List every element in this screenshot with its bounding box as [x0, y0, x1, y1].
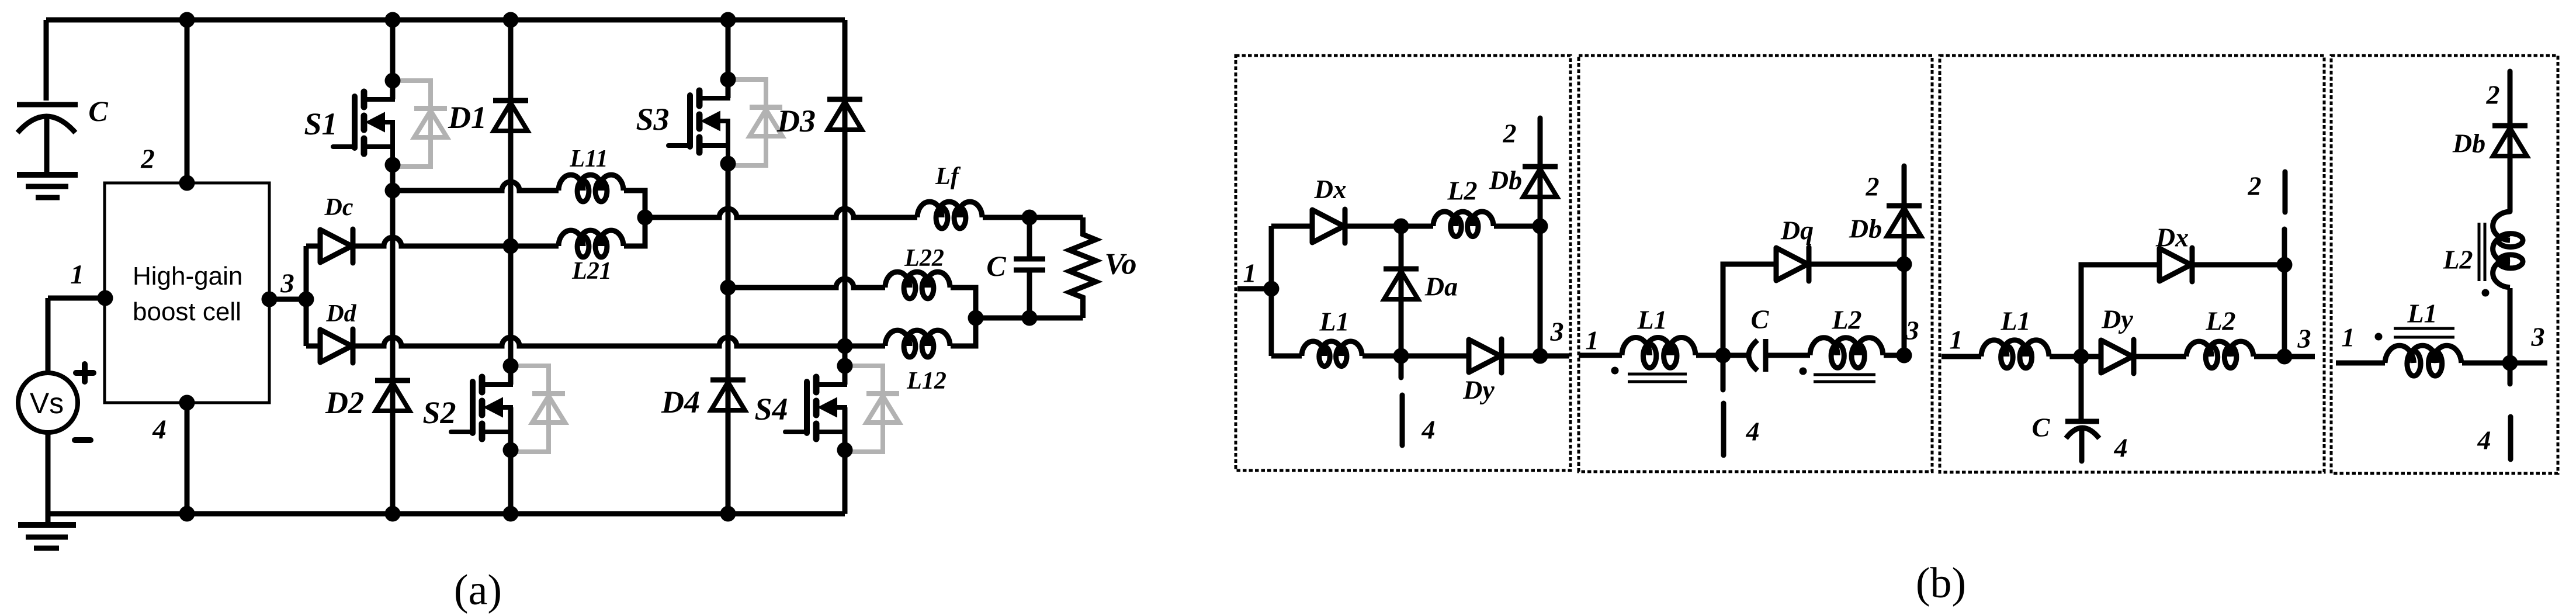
svg-text:S2: S2 — [422, 395, 456, 430]
wire top bus — [46, 18, 845, 23]
phase dot L2 (b2) — [1800, 368, 1807, 375]
svg-text:L1: L1 — [2407, 299, 2437, 328]
junction b1 Da bottom — [1393, 348, 1409, 364]
wire Vs bottom lead — [46, 432, 51, 514]
svg-text:Dc: Dc — [324, 194, 353, 221]
inductor L21 — [559, 230, 623, 257]
junction node 4 box — [179, 395, 195, 411]
svg-text:Dy: Dy — [1462, 375, 1495, 405]
wire b1 top rail left — [1271, 224, 1312, 229]
high-gain boost cell block — [105, 183, 269, 403]
inductor L1 (b4) — [2385, 345, 2461, 376]
svg-text:3: 3 — [1905, 316, 1919, 345]
wire b3 rail right — [2254, 354, 2315, 359]
diode Db (b2) — [1887, 206, 1922, 236]
svg-text:S3: S3 — [636, 102, 669, 137]
wire S1 source to L11 (hop over D1/S2 leg) — [393, 182, 559, 191]
svg-text:Da: Da — [1424, 272, 1458, 302]
wire b3 node2 tail — [2282, 229, 2287, 265]
label + (Vs polarity) — [76, 364, 93, 382]
svg-text:4: 4 — [2477, 425, 2491, 455]
wire S1/D2 leg lower — [390, 165, 396, 514]
phase dot L1 (b4) — [2375, 333, 2383, 341]
wire b4 rail right — [2462, 361, 2547, 366]
wire Dc to L21 (hop over S1/D2 leg) — [354, 237, 559, 246]
junction S1 source line — [385, 183, 401, 199]
svg-text:Db: Db — [1849, 214, 1882, 244]
junction node 3 box edge — [262, 292, 278, 307]
inductor L2 (b3) — [2186, 341, 2253, 368]
wire L21 to merge node — [624, 217, 645, 246]
transistor S1 — [333, 73, 447, 173]
wire output bottom — [976, 316, 1083, 321]
junction node 2 top — [179, 12, 195, 28]
svg-text:3: 3 — [2297, 324, 2311, 354]
capacitor C (input, top-left) — [17, 105, 78, 175]
boost cell box 4 (dashed) — [2331, 56, 2558, 473]
wire b4 rail left — [2336, 361, 2385, 366]
wire node 1 — [48, 296, 105, 301]
svg-text:2: 2 — [140, 144, 155, 174]
wire D3/S4 leg lower — [843, 407, 848, 514]
svg-text:L1: L1 — [1319, 307, 1349, 337]
transistor S4 — [785, 358, 899, 458]
svg-text:L2: L2 — [1447, 176, 1477, 206]
svg-text:4: 4 — [1422, 415, 1436, 445]
wire input capacitor branch lead — [44, 20, 49, 101]
junction b3 center — [2074, 349, 2089, 365]
svg-text:L2: L2 — [2205, 306, 2235, 336]
wire b3 terminal 2 stub — [2283, 172, 2288, 212]
diode D2 — [375, 380, 410, 411]
diode D1 — [493, 101, 528, 131]
core lines L1 (b2) — [1628, 374, 1687, 382]
diode Da (b1) — [1384, 226, 1419, 356]
svg-text:S1: S1 — [304, 106, 337, 141]
capacitor C (output) — [1014, 217, 1045, 318]
wire b1 node 1 stub — [1237, 286, 1271, 292]
svg-text:S4: S4 — [754, 392, 788, 427]
wire b2 Dq to node — [1810, 262, 1904, 267]
junction S4 drain — [837, 358, 853, 374]
wire b1 terminal 2 — [1538, 118, 1543, 226]
wire Dd to L12 (hops over three legs) — [354, 337, 885, 346]
svg-text:3: 3 — [1550, 317, 1564, 347]
boost cell box 1 (dashed) — [1236, 56, 1570, 470]
boost cell box 2 (dashed) — [1579, 56, 1932, 472]
wire b1 bottom rail mid — [1362, 354, 1469, 359]
svg-text:High-gain: High-gain — [133, 262, 242, 290]
diode Dq (b2) — [1776, 247, 1809, 281]
svg-text:C: C — [2032, 413, 2051, 442]
junction b2 node 3 — [1897, 348, 1912, 364]
svg-text:L21: L21 — [571, 258, 612, 285]
wire b2 Dq branch — [1723, 264, 1776, 355]
inductor L1 (b2) — [1622, 337, 1696, 368]
svg-text:L22: L22 — [904, 245, 944, 272]
inductor L22 — [885, 272, 950, 299]
capacitor C (b3) — [2065, 357, 2099, 461]
wire b2 rail to L2 — [1766, 353, 1810, 358]
wire b1 right vertical — [1538, 226, 1543, 356]
svg-text:C: C — [88, 95, 108, 127]
wire b3 rail left — [1941, 354, 1981, 359]
junction b1 node 3 — [1533, 348, 1548, 364]
wire merge to Lf (hops over S3/D4 and D3/S4 legs) — [645, 209, 917, 217]
svg-text:1: 1 — [1243, 258, 1257, 288]
junction b1 Da top — [1393, 219, 1409, 234]
wire D1/S2 leg upper — [508, 20, 514, 385]
wire S3/D4 leg upper — [726, 20, 731, 98]
svg-text:Lf: Lf — [935, 163, 961, 190]
wire b1 bottom rail right — [1503, 354, 1569, 359]
wire b2 rail right — [1884, 353, 1904, 358]
svg-text:Dx: Dx — [1314, 175, 1347, 204]
core lines L2 (b2) — [1814, 375, 1875, 382]
junction Dd line / D3-S4 leg — [837, 338, 853, 354]
wire Lf to output node — [983, 215, 1083, 220]
wire b4 terminal 4 tail — [2508, 363, 2513, 384]
wire b4 vertical lower — [2508, 288, 2513, 363]
svg-text:1: 1 — [70, 259, 84, 290]
svg-text:3: 3 — [280, 268, 294, 299]
wire S3 source to L22 (hop over D3/S4 leg) — [728, 279, 885, 288]
wire L11 to merge node — [624, 191, 645, 217]
source Vs — [18, 373, 78, 432]
svg-text:L2: L2 — [1831, 305, 1861, 335]
junction b3 Dx out — [2277, 257, 2293, 273]
wire D1/S2 leg lower — [508, 407, 514, 514]
inductor L2 (b4, vertical) — [2493, 212, 2523, 288]
wire b3 rail mid-right — [2135, 354, 2186, 359]
core lines L2 (b4) — [2479, 223, 2485, 281]
wire b1 top rail right — [1494, 224, 1540, 229]
diode Dd — [320, 329, 353, 363]
wire b2 terminal 4 tail — [1721, 355, 1726, 390]
wire b1 input bracket — [1269, 226, 1274, 356]
wire Vs top lead — [46, 298, 51, 374]
junction b3 node 3 — [2277, 349, 2293, 365]
phase dot L1 (b2) — [1611, 367, 1619, 375]
transistor S3 — [668, 72, 782, 172]
svg-text:2: 2 — [1503, 119, 1517, 148]
junction D1 leg top bus — [503, 12, 519, 28]
inductor L1 (b3) — [1981, 340, 2049, 368]
junction L11/L21 merge — [637, 210, 653, 226]
svg-text:Vo: Vo — [1105, 248, 1137, 281]
wire b1 top rail mid — [1346, 224, 1433, 229]
transistor S2 — [451, 358, 565, 458]
inductor L1 (b1) — [1302, 341, 1362, 366]
diode Dx (b3) — [2159, 248, 2192, 282]
svg-text:(a): (a) — [454, 566, 502, 614]
junction Dc line / D1-S2 leg — [503, 238, 519, 254]
svg-text:L12: L12 — [906, 368, 947, 394]
svg-text:C: C — [1751, 304, 1770, 334]
junction b4 node 3 — [2502, 355, 2518, 371]
junction S1 leg bottom bus — [385, 506, 401, 522]
svg-text:D2: D2 — [325, 385, 364, 420]
inductor L2 (b2) — [1810, 338, 1883, 368]
junction node 4 bus — [179, 506, 195, 522]
wire b1 terminal 4 tail — [1399, 356, 1404, 378]
junction node 1 — [98, 290, 113, 306]
junction output bottom — [1022, 310, 1038, 326]
wire Dd anode lead — [306, 344, 320, 349]
svg-text:2: 2 — [2248, 171, 2262, 201]
svg-text:4: 4 — [1746, 417, 1760, 447]
svg-text:(b): (b) — [1916, 559, 1966, 607]
svg-text:3: 3 — [2531, 322, 2545, 352]
svg-text:Dy: Dy — [2101, 304, 2133, 334]
wire L12 to output merge — [951, 318, 976, 346]
svg-text:1: 1 — [1586, 326, 1599, 355]
svg-text:C: C — [986, 250, 1006, 282]
junction b1 node Db — [1533, 219, 1548, 234]
wire L22 to output merge — [951, 288, 976, 318]
diode Dy (b1) — [1469, 339, 1502, 373]
svg-text:D3: D3 — [776, 103, 816, 139]
ground (bottom-left, below Vs) — [18, 514, 76, 548]
wire b2 right vertical with terminal 2 — [1902, 166, 1907, 355]
resistor Vo (load) — [1070, 217, 1096, 318]
inductor L11 — [559, 175, 623, 202]
svg-text:D4: D4 — [661, 385, 700, 420]
junction S1 leg top bus — [385, 12, 401, 28]
wire D3/S4 leg upper — [843, 20, 848, 385]
diode D3 — [827, 99, 862, 130]
wire b4 vertical upper — [2508, 71, 2513, 212]
svg-text:D1: D1 — [448, 100, 487, 135]
junction b2 Dq out — [1897, 257, 1912, 272]
junction S3 leg top bus — [720, 12, 736, 28]
svg-text:1: 1 — [2342, 323, 2355, 352]
wire b1 bottom rail left — [1271, 354, 1302, 359]
wire b3 Dx to node — [2193, 262, 2284, 268]
diode Db (b1) — [1523, 167, 1558, 197]
junction b2 center — [1715, 348, 1731, 364]
svg-text:2: 2 — [1866, 172, 1880, 202]
wire b2 rail to C — [1696, 353, 1747, 358]
svg-text:L11: L11 — [569, 146, 608, 172]
wire node 4 vertical — [185, 403, 190, 514]
svg-text:2: 2 — [2486, 80, 2500, 110]
svg-text:L1: L1 — [2000, 306, 2030, 336]
svg-text:boost cell: boost cell — [133, 297, 241, 326]
svg-text:Dd: Dd — [325, 300, 356, 327]
wire b4 terminal 4 stub — [2508, 417, 2513, 459]
svg-text:Dx: Dx — [2155, 223, 2189, 252]
label - (Vs polarity) — [75, 437, 91, 443]
wire node 3 branch vertical — [304, 246, 309, 346]
boost cell box 3 (dashed) — [1940, 56, 2324, 472]
core lines L1 (b4) — [2394, 328, 2454, 337]
junction node 2 box — [179, 175, 195, 191]
diode Dc — [320, 229, 353, 263]
wire S1/D2 leg upper — [390, 20, 396, 99]
diode Dx (b1) — [1312, 209, 1345, 243]
phase dot L2 (b4) — [2482, 289, 2490, 297]
wire b3 Dx branch — [2081, 265, 2159, 357]
svg-text:4: 4 — [2114, 433, 2128, 463]
junction L22/L12 merge — [968, 310, 984, 326]
svg-text:1: 1 — [1950, 325, 1963, 355]
svg-text:Vs: Vs — [30, 387, 64, 420]
junction S3 source line — [720, 280, 736, 296]
wire node 3 — [269, 297, 306, 302]
junction b1 node 1 — [1264, 281, 1280, 297]
svg-text:Db: Db — [1489, 165, 1522, 195]
wire b3 rail mid-left — [2050, 354, 2101, 359]
wire b2 terminal 4 stub — [1721, 403, 1726, 455]
wire bottom bus — [48, 511, 845, 517]
wire S3/D4 leg lower — [726, 164, 731, 514]
junction S2 leg bottom bus — [503, 506, 519, 522]
wire b3 right vertical — [2282, 265, 2287, 357]
svg-text:L1: L1 — [1637, 305, 1667, 335]
junction output top — [1022, 210, 1038, 226]
diode D4 — [710, 380, 746, 410]
diode Dy (b3) — [2101, 340, 2134, 373]
junction node 3 branch — [299, 292, 314, 307]
svg-text:Dq: Dq — [1780, 216, 1814, 245]
inductor L2 (b1) — [1433, 212, 1493, 237]
wire b1 terminal 4 stub — [1400, 395, 1405, 445]
wire b2 rail left — [1579, 353, 1622, 358]
diode Db (b4) — [2492, 126, 2528, 156]
inductor L12 — [885, 330, 950, 357]
junction S3 leg bottom bus — [720, 506, 736, 522]
svg-text:L2: L2 — [2442, 245, 2473, 275]
svg-text:Db: Db — [2452, 129, 2485, 158]
svg-text:4: 4 — [152, 414, 167, 445]
inductor Lf — [917, 202, 982, 229]
wire Dc anode lead — [306, 244, 320, 249]
capacitor C (b2) — [1749, 339, 1766, 372]
node 2 vertical wire — [185, 20, 190, 183]
ground (below input capacitor C) — [17, 175, 78, 198]
